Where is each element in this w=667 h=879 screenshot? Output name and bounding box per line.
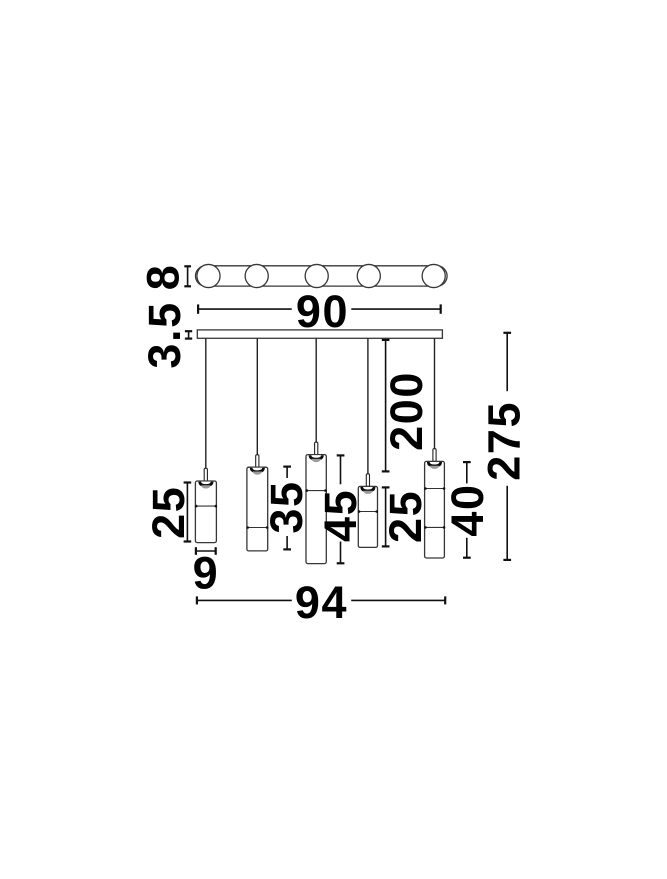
dimension 94	[197, 596, 445, 604]
pendant P5 divider lower	[425, 526, 444, 528]
svg-text:200: 200	[381, 371, 432, 451]
stem pendant 2	[256, 455, 259, 467]
svg-text:275: 275	[479, 401, 530, 481]
wire pendant 5	[434, 338, 436, 448]
pendant P3 socket cap	[310, 455, 322, 462]
svg-text:40: 40	[442, 483, 493, 536]
dimension 35 (P2)	[283, 467, 291, 550]
svg-text:9: 9	[193, 547, 220, 598]
lamp circle 5	[422, 264, 445, 287]
pendant P2 divider	[248, 527, 268, 529]
stem pendant 4	[366, 474, 369, 487]
lamp circle 3	[305, 264, 328, 287]
dimension 8 tick	[184, 266, 191, 286]
pendant P5 divider upper	[425, 488, 444, 490]
pendant P2 socket cap	[251, 468, 263, 475]
svg-text:94: 94	[295, 577, 348, 628]
dimension 25 left (P1)	[184, 483, 192, 542]
svg-text:25: 25	[143, 486, 194, 539]
pendant P3 divider	[307, 490, 326, 492]
dimension 9	[196, 547, 216, 555]
svg-text:8: 8	[138, 264, 189, 291]
pendant P5 socket cap	[428, 462, 440, 469]
stem pendant 1	[204, 468, 207, 481]
svg-text:45: 45	[315, 489, 366, 542]
wire pendant 3	[315, 338, 317, 442]
svg-text:25: 25	[380, 490, 431, 543]
lamp circle 2	[245, 264, 268, 287]
wire pendant 1	[205, 338, 207, 468]
wire pendant 2	[256, 338, 258, 455]
lamp circle 1	[197, 264, 220, 287]
dimension 275	[503, 333, 511, 560]
dimension 200	[382, 340, 390, 472]
pendant P4 socket cap	[362, 487, 374, 494]
wire pendant 4	[367, 338, 369, 474]
dimension 45 (P3)	[337, 455, 345, 563]
stem pendant 3	[315, 442, 318, 454]
pendant P1 divider	[196, 505, 216, 507]
top view canopy bar	[196, 266, 448, 286]
dimension 90 line	[198, 304, 441, 313]
lamp circle 4	[357, 264, 380, 287]
pendant P2 body	[247, 467, 268, 551]
dimension 25 right (P4)	[382, 487, 390, 546]
svg-text:3.5: 3.5	[139, 301, 190, 368]
svg-text:35: 35	[261, 480, 312, 533]
pendant P1 body	[195, 481, 216, 543]
stem pendant 5	[433, 449, 436, 462]
pendant P3 body	[306, 455, 326, 564]
pendant P4 divider	[359, 511, 377, 513]
pendant P1 socket cap	[200, 482, 212, 489]
dimension 40 (P5)	[463, 462, 471, 558]
dimension 3.5 tick	[185, 331, 192, 338]
front view ceiling bar	[197, 330, 442, 338]
pendant P4 body	[358, 486, 377, 547]
pendant P5 body	[425, 461, 445, 558]
